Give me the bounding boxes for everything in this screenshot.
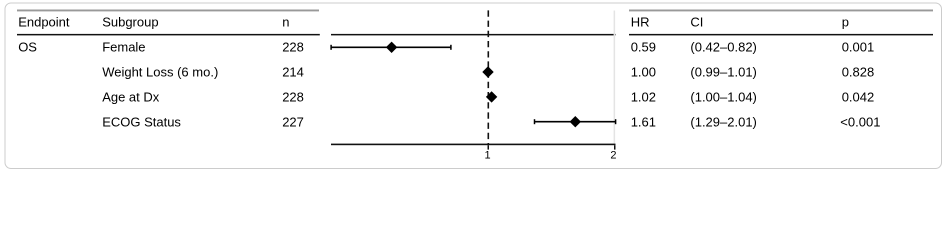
svg-text:1: 1 — [484, 150, 490, 162]
svg-text:(1.29–2.01): (1.29–2.01) — [690, 114, 757, 129]
row 1 CI line — [331, 46, 451, 48]
row 1 diamond marker — [386, 42, 397, 53]
svg-text:(0.99–1.01): (0.99–1.01) — [690, 65, 757, 80]
card background — [5, 3, 942, 169]
row 1 CI right cap — [450, 45, 452, 50]
svg-text:OS: OS — [18, 40, 37, 55]
row 2 CI line — [486, 71, 490, 73]
svg-text:Age at Dx: Age at Dx — [102, 89, 160, 104]
svg-text:1.02: 1.02 — [631, 89, 656, 104]
row 2 diamond marker — [482, 66, 493, 77]
header separator black rule plot — [331, 34, 616, 36]
light gridline at x=2 — [614, 11, 616, 144]
svg-text:228: 228 — [282, 89, 304, 104]
svg-text:0.59: 0.59 — [631, 40, 656, 55]
svg-text:Female: Female — [102, 40, 145, 55]
svg-text:p: p — [842, 15, 849, 30]
row 4 CI left cap — [534, 119, 536, 124]
svg-text:n: n — [282, 15, 289, 30]
header separator black rule right — [629, 34, 933, 36]
svg-text:227: 227 — [282, 114, 304, 129]
svg-text:(1.00–1.04): (1.00–1.04) — [690, 89, 757, 104]
row 4 CI right cap — [615, 119, 617, 124]
svg-text:HR: HR — [631, 15, 650, 30]
svg-text:ECOG Status: ECOG Status — [102, 114, 181, 129]
svg-text:2: 2 — [610, 150, 616, 162]
svg-text:Subgroup: Subgroup — [102, 15, 158, 30]
top gray rule left segment — [17, 10, 319, 12]
row 3 CI line — [488, 96, 495, 98]
header separator black rule left — [17, 34, 320, 36]
svg-text:214: 214 — [282, 65, 304, 80]
svg-text:0.001: 0.001 — [842, 40, 875, 55]
x axis line — [331, 144, 616, 146]
axis tick at 1 — [488, 145, 490, 149]
row 1 CI left cap — [330, 45, 332, 50]
dashed reference line at x=1 — [487, 10, 489, 144]
top gray rule right segment — [629, 10, 933, 12]
svg-text:CI: CI — [690, 15, 703, 30]
row 4 CI line — [535, 121, 616, 123]
svg-text:0.828: 0.828 — [842, 65, 875, 80]
svg-text:228: 228 — [282, 40, 304, 55]
row 4 diamond marker — [570, 116, 581, 127]
svg-text:Weight Loss (6 mo.): Weight Loss (6 mo.) — [102, 65, 218, 80]
svg-text:1.61: 1.61 — [631, 114, 656, 129]
svg-text:(0.42–0.82): (0.42–0.82) — [690, 40, 757, 55]
svg-text:0.042: 0.042 — [842, 89, 875, 104]
svg-text:Endpoint: Endpoint — [18, 15, 70, 30]
svg-text:1.00: 1.00 — [631, 65, 656, 80]
svg-text:<0.001: <0.001 — [840, 114, 880, 129]
row 3 diamond marker — [486, 91, 497, 102]
axis tick at 2 — [614, 145, 616, 149]
